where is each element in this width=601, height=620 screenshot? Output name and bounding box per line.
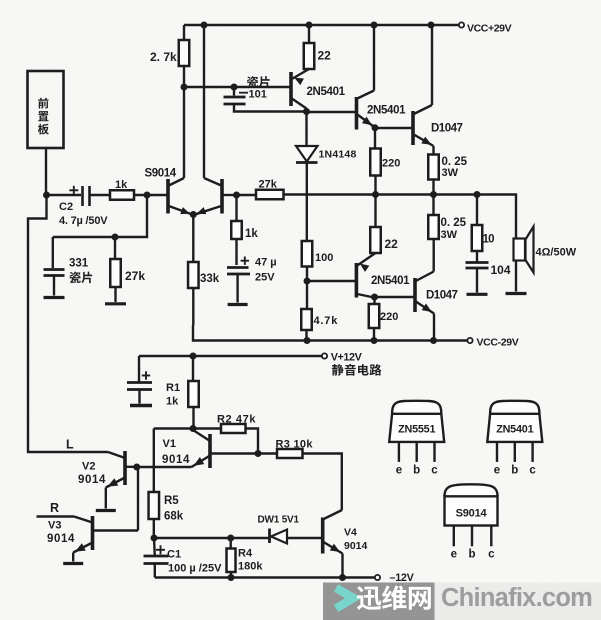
svg-text:1k: 1k bbox=[115, 179, 128, 191]
wire : V3 base riser to V2 base node bbox=[137, 467, 139, 531]
svg-text:R2 47k: R2 47k bbox=[217, 414, 256, 426]
node : rail junction 22 ohm bbox=[306, 22, 313, 29]
svg-text:L: L bbox=[66, 438, 74, 452]
block : preamp board (qian zhi ban) bbox=[28, 71, 64, 148]
node : rail junction 220 lower bbox=[371, 337, 378, 344]
node : ceramic 101 tap bbox=[231, 84, 238, 91]
resistor R1 1k bbox=[192, 356, 194, 381]
resistor 0.25 3W (upper) bbox=[432, 146, 434, 155]
svg-text:V1: V1 bbox=[163, 438, 176, 450]
node : input node bbox=[43, 192, 50, 199]
label : mute circuit (jing yin dian lu) bbox=[332, 364, 344, 376]
wire : preamp output to input node bbox=[45, 148, 47, 195]
transistor 2N5401 (upper driver) bbox=[373, 25, 375, 91]
ground : under 47u bbox=[228, 303, 248, 306]
watermark text xunweiwang bbox=[357, 586, 382, 610]
node : output node bbox=[474, 191, 481, 198]
svg-text:27k: 27k bbox=[125, 269, 145, 283]
svg-text:c: c bbox=[488, 549, 495, 561]
wire : mid output rail bbox=[237, 194, 257, 196]
svg-text:Chinafix.com: Chinafix.com bbox=[441, 584, 592, 612]
svg-text:e: e bbox=[396, 464, 402, 476]
ground : under 27k bbox=[105, 302, 126, 305]
capacitor C1 100u/25V bbox=[153, 538, 156, 556]
svg-text:100 µ /25V: 100 µ /25V bbox=[168, 563, 222, 575]
node : V4 emitter bbox=[339, 574, 346, 581]
svg-text:25V: 25V bbox=[255, 272, 275, 284]
svg-text:V3: V3 bbox=[48, 520, 61, 532]
wire : R1 node down to R5 (crossover) bbox=[154, 427, 193, 429]
transistor 2N5401 (VAS top) bbox=[289, 72, 293, 106]
node : rail junction D1047 emitter bbox=[430, 337, 437, 344]
wire : V1 base wire bbox=[210, 452, 258, 454]
resistor 220 (lower) bbox=[373, 297, 375, 304]
svg-text:C1: C1 bbox=[167, 549, 181, 561]
wire : 1k to base node bbox=[134, 194, 168, 196]
svg-text:220: 220 bbox=[382, 158, 400, 170]
svg-text:180k: 180k bbox=[238, 561, 263, 573]
node : 220 upper bottom bbox=[372, 191, 379, 198]
resistor 22 (top) bbox=[308, 25, 310, 43]
svg-text:b: b bbox=[511, 464, 518, 476]
svg-text:e: e bbox=[494, 464, 500, 476]
transistor V1 9014 bbox=[208, 434, 212, 468]
svg-text:331: 331 bbox=[69, 258, 89, 270]
resistor 27k (bias to ground) bbox=[114, 237, 116, 259]
svg-text:101: 101 bbox=[249, 89, 267, 101]
node : 2.7k bottom / VAS base node bbox=[181, 84, 188, 91]
node : left S9014 base node bbox=[144, 192, 151, 199]
svg-text:2N5401: 2N5401 bbox=[367, 105, 406, 117]
svg-text:ZN5401: ZN5401 bbox=[496, 423, 533, 435]
svg-text:3W: 3W bbox=[441, 229, 458, 241]
capacitor 104 bbox=[476, 251, 478, 262]
resistor R2 47k bbox=[193, 427, 221, 429]
svg-text:4.7k: 4.7k bbox=[314, 315, 339, 327]
diode 1N4148 bbox=[305, 112, 307, 147]
resistor 1k (right S9014 base) bbox=[235, 195, 237, 221]
wire : V1 emitter to V2/V3 bases bbox=[137, 466, 192, 468]
ground : under V2 bbox=[96, 509, 116, 512]
svg-text:V+12V: V+12V bbox=[331, 352, 363, 364]
capacitor 101 ceramic bbox=[233, 87, 235, 96]
node : right base node bbox=[233, 192, 240, 199]
svg-text:27k: 27k bbox=[259, 179, 278, 191]
resistor 1k (input) bbox=[110, 190, 134, 200]
svg-text:c: c bbox=[529, 464, 536, 476]
svg-text:c: c bbox=[431, 464, 438, 476]
resistor 10 (zobel) bbox=[476, 195, 478, 226]
node : 27k top bbox=[112, 234, 119, 241]
svg-text:33k: 33k bbox=[200, 273, 220, 285]
wire : R3 to V4 collector bbox=[303, 454, 342, 511]
ground : under bypass cap bbox=[130, 404, 152, 407]
node : rail junction S9014 collector riser bbox=[201, 22, 208, 29]
ground : under 331 bbox=[44, 296, 65, 299]
svg-text:VCC-29V: VCC-29V bbox=[477, 337, 519, 349]
svg-text:9014: 9014 bbox=[162, 454, 190, 466]
svg-text:R: R bbox=[50, 501, 59, 515]
package ZN5551 (TO-92 outline) bbox=[389, 414, 444, 442]
resistor 27k (feedback) bbox=[256, 190, 284, 200]
wire : node to 2N5401 base bbox=[184, 86, 291, 88]
node : V1 base node bbox=[255, 450, 262, 457]
wire : driver emitter to D1047 base bbox=[375, 127, 413, 129]
wire : emitters to 33k bbox=[192, 215, 194, 263]
terminal -12V bbox=[375, 575, 380, 580]
resistor R5 68k bbox=[149, 492, 160, 519]
svg-text:9014: 9014 bbox=[344, 540, 368, 552]
resistor R4 180k bbox=[229, 538, 231, 549]
capacitor bypass at V+12V bbox=[138, 356, 140, 382]
node : VAS collector / 101 / diode node bbox=[303, 108, 310, 115]
wire : feedback resistor to output node bbox=[284, 195, 517, 239]
transistor D1047 (upper output) bbox=[411, 111, 415, 145]
svg-text:3W: 3W bbox=[442, 167, 459, 179]
resistor R3 10k bbox=[258, 452, 277, 454]
svg-text:b: b bbox=[468, 549, 475, 561]
wire : left feedback/L-signal rail down bbox=[28, 195, 108, 452]
svg-text:e: e bbox=[451, 549, 457, 561]
svg-text:S9014: S9014 bbox=[456, 508, 488, 520]
resistor 4.7k bbox=[306, 281, 308, 309]
node : rail junction 4.7k bbox=[304, 337, 311, 344]
svg-text:V2: V2 bbox=[82, 461, 95, 473]
svg-text:2. 7k: 2. 7k bbox=[150, 50, 177, 64]
wire : input node to C2 bbox=[47, 194, 82, 196]
diode DW1 5V1 zener bbox=[268, 529, 271, 544]
ground : under speaker bbox=[506, 292, 527, 295]
svg-text:D1047: D1047 bbox=[431, 123, 462, 135]
svg-text:ZN5551: ZN5551 bbox=[398, 423, 435, 435]
wire : right base to 1k/47u node bbox=[222, 194, 237, 196]
terminal VCC+29V bbox=[459, 22, 464, 27]
wire : node to second driver base bbox=[307, 111, 357, 113]
resistor 220 (upper) bbox=[374, 128, 376, 149]
node : common emitters bbox=[190, 211, 197, 218]
svg-text:4. 7µ /50V: 4. 7µ /50V bbox=[59, 215, 108, 227]
svg-text:0. 25: 0. 25 bbox=[441, 217, 467, 229]
ground : under V3 bbox=[63, 562, 83, 565]
svg-text:R4: R4 bbox=[238, 548, 253, 560]
package ZN5401 (TO-92 outline) bbox=[487, 414, 542, 442]
svg-text:47 µ: 47 µ bbox=[255, 257, 277, 269]
node : upper output-driver node bbox=[372, 124, 379, 131]
svg-text:9014: 9014 bbox=[47, 533, 75, 545]
svg-text:VCC+29V: VCC+29V bbox=[467, 23, 512, 35]
svg-text:R1: R1 bbox=[166, 382, 180, 394]
wire : to D1047 lower base bbox=[375, 296, 416, 298]
svg-text:1k: 1k bbox=[245, 228, 258, 240]
wire : R2 to base node bbox=[246, 429, 259, 454]
transistor 2N5401 (lower driver) bbox=[357, 253, 375, 266]
transistor V4 9014 bbox=[321, 518, 325, 554]
capacitor 331 ceramic bbox=[52, 237, 54, 268]
wire : R input bbox=[37, 515, 75, 517]
svg-text:C2: C2 bbox=[59, 201, 73, 213]
terminal V+12V bbox=[322, 353, 327, 358]
node : R1 top bbox=[190, 353, 197, 360]
svg-text:2N5401: 2N5401 bbox=[371, 275, 410, 287]
package S9014 (TO-92 outline) bbox=[445, 496, 498, 525]
node : R5 bottom / C1 node bbox=[151, 535, 158, 542]
svg-text:10: 10 bbox=[483, 234, 495, 246]
node : R4 top bbox=[227, 535, 234, 542]
wire : -12V bottom rail bbox=[155, 576, 375, 578]
svg-text:9014: 9014 bbox=[78, 474, 106, 486]
resistor 100 bbox=[302, 241, 313, 267]
node : R4 bottom bbox=[228, 574, 235, 581]
wire : C2 to 1k bbox=[90, 194, 111, 196]
svg-text:–12V: –12V bbox=[390, 572, 415, 584]
svg-text:1N4148: 1N4148 bbox=[319, 149, 357, 161]
transistor Q2 S9014 (diff pair right) bbox=[220, 179, 224, 214]
resistor 0.25 3W (lower) bbox=[432, 195, 434, 216]
speaker 4ohm/50W bbox=[514, 239, 526, 261]
node : V2 base node bbox=[133, 464, 140, 471]
capacitor 47u/25V bbox=[241, 260, 249, 262]
wire : to lower driver base bbox=[307, 280, 356, 282]
svg-text:220: 220 bbox=[380, 311, 398, 323]
resistor 2.7k bbox=[183, 25, 185, 40]
node : rail junction 2N5401 driver collector bbox=[371, 22, 378, 29]
svg-text:2N5401: 2N5401 bbox=[307, 86, 346, 98]
svg-text:R5: R5 bbox=[164, 495, 179, 507]
transistor V3 9014 (R mute) bbox=[91, 516, 95, 550]
svg-text:S9014: S9014 bbox=[145, 168, 177, 180]
svg-text:104: 104 bbox=[491, 263, 511, 277]
svg-text:D1047: D1047 bbox=[426, 290, 457, 302]
node : rail junction D1047 collector bbox=[428, 22, 435, 29]
svg-text:b: b bbox=[413, 464, 420, 476]
wire : V+12V line bbox=[139, 355, 322, 357]
node : lower driver collector node bbox=[371, 294, 378, 301]
watermark chevron bbox=[336, 588, 354, 609]
wire : base node down to 331/27k rail bbox=[53, 195, 147, 237]
svg-text:DW1 5V1: DW1 5V1 bbox=[258, 515, 300, 526]
node : lower driver base node bbox=[304, 278, 311, 285]
transistor V2 9014 (L mute) bbox=[123, 451, 127, 485]
transistor D1047 (lower output) bbox=[413, 278, 417, 312]
resistor 33k bbox=[188, 262, 199, 288]
resistor 22 (lower) bbox=[374, 195, 376, 228]
ground : under 104 bbox=[467, 293, 488, 296]
svg-text:68k: 68k bbox=[164, 511, 184, 523]
svg-text:22: 22 bbox=[318, 49, 332, 63]
wire : bias line to V4 base bbox=[154, 537, 270, 539]
svg-text:R3 10k: R3 10k bbox=[276, 439, 314, 451]
svg-text:4Ω/50W: 4Ω/50W bbox=[536, 247, 577, 259]
transistor Q1 S9014 (diff pair left) bbox=[166, 179, 170, 214]
node : R1 bottom / V1 collector node bbox=[190, 425, 197, 432]
svg-text:V4: V4 bbox=[344, 527, 357, 539]
svg-text:100: 100 bbox=[315, 252, 333, 264]
svg-text:1k: 1k bbox=[166, 396, 179, 408]
wire : bottom VCC-29V rail bbox=[193, 325, 467, 341]
node : 0.25 junction bbox=[430, 191, 437, 198]
svg-text:22: 22 bbox=[385, 237, 399, 251]
capacitor C2 4.7u/50V bbox=[81, 186, 84, 206]
wire : top VCC+29V rail bbox=[184, 24, 459, 26]
watermark bar bbox=[323, 583, 435, 620]
terminal VCC-29V bbox=[467, 338, 472, 343]
